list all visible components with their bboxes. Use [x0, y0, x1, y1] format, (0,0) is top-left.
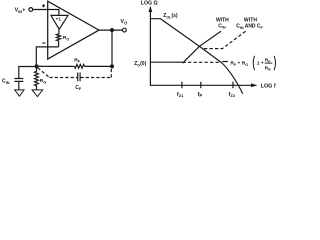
tick fP — [200, 82, 202, 89]
wire (dashed) CF right plate to node B — [80, 68, 111, 77]
svg-text:VIN+: VIN+ — [15, 7, 26, 13]
wire (dashed) to CF left plate — [49, 77, 77, 79]
wire VIN+ to buffer input — [33, 10, 59, 16]
tick fZ2 — [232, 82, 234, 89]
curve ZO rising (with CIN) — [183, 31, 222, 63]
wire RO to summing node — [36, 47, 58, 65]
label RF+RO(1+RF/RG) leader — [222, 61, 228, 63]
svg-text:LOG Ω: LOG Ω — [141, 1, 158, 7]
level ZO(0) dashed extension — [183, 61, 220, 63]
x-axis (LOG f) — [150, 84, 251, 86]
resistor RG — [35, 68, 39, 89]
tick fZ1 — [181, 82, 183, 89]
op-amp plus input mark — [42, 4, 45, 7]
svg-text:1 +: 1 + — [257, 61, 264, 67]
wire RF to node B — [85, 65, 111, 67]
svg-text:fZ2: fZ2 — [229, 92, 236, 98]
svg-text:WITH: WITH — [216, 17, 229, 23]
terminal VO — [123, 28, 127, 32]
resistor RF — [74, 64, 84, 68]
wire node to CIN — [19, 67, 37, 79]
wire (dashed) node A to CF — [38, 68, 50, 78]
curve dashed (with CIN and CF) — [204, 30, 247, 48]
node (output junction) — [110, 28, 114, 32]
svg-text:ZO(0): ZO(0) — [134, 61, 146, 67]
svg-text:WITH: WITH — [244, 17, 257, 23]
ground (RG) — [32, 90, 43, 97]
svg-text:fZ1: fZ1 — [177, 92, 184, 98]
capacitor CF — [78, 73, 80, 82]
svg-text:fP: fP — [198, 92, 203, 98]
ground (CIN) — [15, 90, 24, 96]
capacitor CIN — [14, 79, 23, 90]
node A (summing node junction) — [35, 64, 39, 68]
level ZO(0) — [150, 61, 182, 63]
op-amp U1 body — [48, 1, 99, 59]
curve ZOL(s) open-loop impedance — [150, 19, 242, 94]
buffer U2 (+1) — [51, 15, 68, 29]
svg-text:ZOL(s): ZOL(s) — [163, 13, 178, 19]
wire node B up to output — [111, 30, 113, 64]
op-amp minus input mark — [42, 42, 45, 44]
resistor RO — [56, 29, 60, 47]
wire op-amp output to VO — [99, 29, 122, 31]
wire node to RF — [39, 65, 75, 67]
y-axis (LOG ohm) — [149, 11, 151, 86]
svg-text:VO: VO — [120, 19, 128, 25]
svg-text:+1: +1 — [56, 17, 62, 23]
svg-text:LOG f: LOG f — [261, 84, 276, 90]
node B (feedback junction) — [110, 64, 114, 68]
terminal VIN+ — [29, 8, 33, 12]
